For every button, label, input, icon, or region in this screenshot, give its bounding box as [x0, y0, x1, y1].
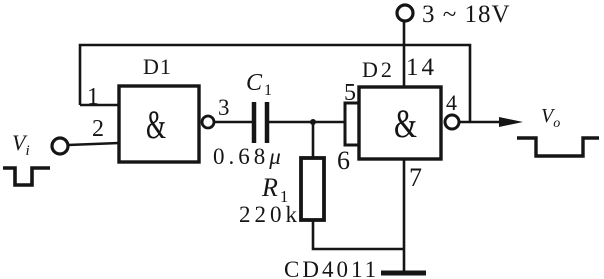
gate D1	[119, 86, 199, 162]
svg-text:3: 3	[218, 95, 230, 120]
ground	[381, 271, 426, 276]
output waveform	[517, 138, 599, 156]
input terminal	[52, 138, 68, 154]
svg-text:D1: D1	[143, 54, 172, 79]
pin 7 wire	[403, 159, 406, 274]
svg-text:6: 6	[337, 146, 350, 175]
input waveform	[3, 168, 50, 185]
svg-text:&: &	[394, 101, 417, 146]
gate D2	[359, 87, 441, 159]
svg-text:0.68μ: 0.68μ	[213, 144, 285, 169]
svg-text:14: 14	[406, 54, 437, 81]
output wire with arrow	[459, 117, 523, 127]
pin 1 wire	[80, 104, 119, 107]
svg-text:2: 2	[92, 116, 104, 142]
power terminal	[397, 5, 413, 21]
svg-text:1: 1	[87, 84, 99, 110]
wire junction to R1	[312, 122, 315, 159]
svg-text:&: &	[146, 102, 166, 147]
svg-text:4: 4	[446, 90, 457, 115]
wire node 3	[214, 121, 252, 124]
wire R1 to ground net	[313, 220, 404, 249]
capacitor C1	[254, 102, 267, 143]
D2 output bubble	[445, 115, 459, 129]
wire C1 to D2 inputs	[269, 121, 346, 124]
svg-text:220k: 220k	[239, 202, 301, 227]
svg-text:CD4011: CD4011	[284, 257, 379, 279]
svg-text:3 ~ 18V: 3 ~ 18V	[422, 1, 511, 28]
D2 input bracket pins 5,6	[345, 103, 359, 145]
resistor R1	[301, 158, 324, 220]
wire power to pin 14	[403, 21, 406, 88]
svg-text:7: 7	[409, 163, 422, 192]
svg-text:D2: D2	[362, 57, 395, 82]
wire feedback pin4 to pin1	[80, 45, 470, 122]
pin 2 wire	[68, 143, 119, 145]
junction node	[310, 119, 316, 125]
svg-text:5: 5	[344, 80, 356, 106]
D1 output bubble	[202, 116, 214, 128]
